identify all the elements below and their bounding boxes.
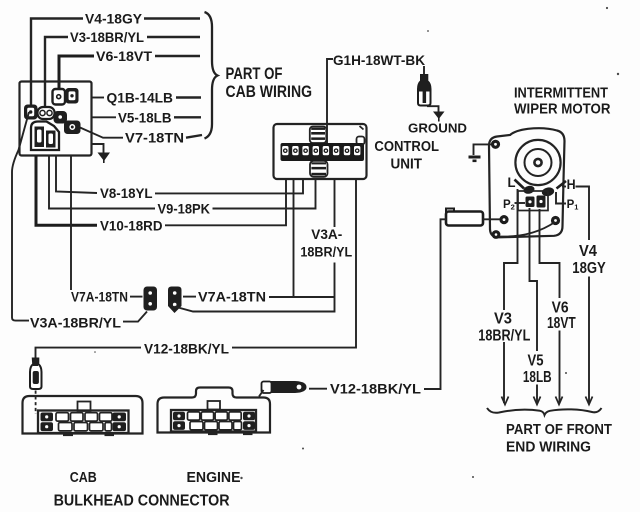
wiper motor body bbox=[489, 128, 565, 237]
bullet connector V12 (engine, horizontal) bbox=[259, 381, 307, 397]
svg-text:V3A-: V3A- bbox=[311, 227, 342, 242]
wire V4-18GY (left elbow + label + line to brace) bbox=[31, 11, 200, 106]
wire V5-18LB (from connector block to brace) bbox=[91, 109, 201, 125]
L terminal tick bbox=[515, 180, 525, 189]
terminal S3 (V4 cavity) bbox=[24, 105, 38, 120]
wire V7A-18TN engine side (to control unit) bbox=[183, 179, 335, 305]
svg-text:V12-18BK/YL: V12-18BK/YL bbox=[144, 341, 229, 357]
motor bolt (right) bbox=[551, 216, 560, 225]
svg-text:V10-18RD: V10-18RD bbox=[100, 217, 163, 233]
park terminal center bbox=[537, 196, 546, 208]
motor ground strap bbox=[469, 144, 492, 160]
label P1 with lead bbox=[556, 192, 578, 212]
wire G1H-18WT-BK (into control unit top) bbox=[327, 53, 425, 143]
svg-text:BULKHEAD CONNECTOR: BULKHEAD CONNECTOR bbox=[54, 492, 230, 509]
wire V8-18YL (connector block to control unit) bbox=[56, 155, 303, 201]
cab harness connector block (top-left) bbox=[20, 82, 92, 156]
terminal S6 (V7 cavity) bbox=[64, 121, 81, 135]
control unit corner notch bbox=[360, 126, 364, 130]
in-line connector (resistor pill) bbox=[446, 209, 500, 226]
ground symbol at connector block bbox=[91, 144, 110, 163]
brace (part of cab wiring) bbox=[205, 12, 218, 139]
svg-text:UNIT: UNIT bbox=[391, 156, 423, 172]
bullet connector V12 (cab, vertical) bbox=[30, 359, 42, 390]
motor armature circles bbox=[515, 140, 560, 185]
wire V6-18VT (left elbow + label + line to brace) bbox=[59, 48, 200, 91]
H terminal tick bbox=[557, 181, 567, 189]
svg-text:18LB: 18LB bbox=[523, 369, 552, 386]
wire V3A-18BR/YL (lower left, from connector block cavity) bbox=[12, 112, 147, 330]
control unit terminal pins bbox=[282, 146, 360, 155]
svg-text:V9-18PK: V9-18PK bbox=[158, 200, 211, 216]
wire V7A-18TN cab side (from connector block) bbox=[71, 155, 143, 305]
svg-text:V5-18LB: V5-18LB bbox=[118, 109, 172, 125]
arrowheads front end wiring bbox=[502, 397, 593, 405]
svg-text:V4-18GY: V4-18GY bbox=[85, 11, 143, 27]
underbrace (part of front end wiring) bbox=[487, 408, 602, 415]
park switch housing bbox=[518, 191, 548, 211]
svg-text:V3A-18BR/YL: V3A-18BR/YL bbox=[30, 314, 121, 330]
wire V5-18LB (motor P2 to front wiring) bbox=[523, 208, 552, 403]
ground symbol (arrow) bbox=[427, 106, 445, 121]
svg-text:18BR/YL: 18BR/YL bbox=[478, 327, 530, 344]
svg-text:V3-18BR/YL: V3-18BR/YL bbox=[70, 29, 144, 45]
wire V3-18BR/YL (left elbow + label + line to brace) bbox=[45, 29, 200, 108]
motor feed bolt (left) bbox=[499, 215, 508, 224]
scan speckles bbox=[94, 7, 619, 479]
bullet connector V7A engine half bbox=[168, 287, 182, 314]
svg-text:V7A-18TN: V7A-18TN bbox=[198, 289, 266, 305]
svg-text:INTERMITTENT: INTERMITTENT bbox=[514, 86, 608, 102]
engine connector pin block bbox=[171, 410, 256, 432]
svg-text:PART OF: PART OF bbox=[226, 65, 283, 83]
cab connector feet bbox=[63, 433, 73, 436]
engine connector notch bbox=[208, 401, 221, 410]
svg-text:V4: V4 bbox=[579, 243, 597, 260]
terminal pair S4 (V3 cavities) bbox=[38, 107, 55, 119]
control unit upper grommet bbox=[310, 127, 327, 144]
terminal S7 (large lower cavity) bbox=[31, 122, 59, 151]
svg-text:PART OF FRONT: PART OF FRONT bbox=[506, 422, 612, 438]
terminal S5 (V5 cavity) bbox=[54, 111, 68, 124]
svg-text:GROUND: GROUND bbox=[408, 120, 467, 135]
engine connector feet bbox=[208, 432, 218, 435]
svg-text:L: L bbox=[508, 174, 516, 190]
svg-text:18VT: 18VT bbox=[547, 315, 576, 332]
svg-text:V6-18VT: V6-18VT bbox=[96, 48, 152, 64]
motor terminal B bolt bbox=[492, 230, 501, 239]
wire V10-18RD (connector block to control unit) bbox=[36, 155, 286, 233]
engine bulkhead connector shell bbox=[158, 388, 271, 433]
svg-text:V5: V5 bbox=[528, 352, 544, 369]
svg-text:18GY: 18GY bbox=[572, 260, 606, 277]
wire V3A-18BR/YL (control unit to engine bullet) bbox=[175, 179, 353, 312]
wire V12-18BK/YL (engine bullet to motor feed) bbox=[309, 219, 446, 396]
wire V3-18BR/YL (motor L to front wiring) bbox=[478, 189, 530, 403]
control unit terminal strip bbox=[281, 137, 365, 162]
svg-text:CAB: CAB bbox=[70, 470, 97, 486]
internal link B to right bolt bbox=[500, 222, 555, 237]
svg-text:CONTROL: CONTROL bbox=[374, 139, 439, 155]
svg-text:END WIRING: END WIRING bbox=[506, 440, 591, 456]
wire V4-18GY (motor H to front wiring) bbox=[562, 187, 606, 404]
cab bulkhead connector shell bbox=[23, 396, 143, 434]
terminal S1 (V6 cavity) bbox=[53, 89, 66, 105]
wire V12-18BK/YL (control unit to cab bullet) bbox=[36, 179, 357, 359]
dashed lead into cab bulkhead connector bbox=[35, 391, 37, 415]
wire V9-18PK (connector block to control unit) bbox=[49, 155, 316, 216]
brush terminal blobs bbox=[523, 185, 536, 195]
svg-text:ENGINE: ENGINE bbox=[187, 470, 241, 486]
park terminal P2 bbox=[526, 197, 535, 208]
svg-text:V3: V3 bbox=[494, 311, 512, 328]
svg-text:V7-18TN: V7-18TN bbox=[125, 130, 184, 146]
svg-text:CAB WIRING: CAB WIRING bbox=[226, 83, 313, 101]
svg-text:Q1B-14LB: Q1B-14LB bbox=[107, 89, 174, 105]
svg-text:V12-18BK/YL: V12-18BK/YL bbox=[330, 381, 421, 397]
cab connector pin block bbox=[38, 402, 129, 434]
svg-text:WIPER MOTOR: WIPER MOTOR bbox=[514, 101, 611, 117]
control unit box bbox=[274, 124, 367, 179]
motor mounting bolt (top left) bbox=[491, 140, 500, 149]
wire Q1B-14LB (from connector block to brace) bbox=[91, 89, 201, 105]
wire V6-18VT (motor center to front wiring) bbox=[540, 209, 577, 403]
bullet connector V7A cab half bbox=[144, 287, 158, 311]
svg-text:G1H-18WT-BK: G1H-18WT-BK bbox=[333, 53, 425, 68]
svg-text:V8-18YL: V8-18YL bbox=[100, 185, 153, 201]
ground bullet connector G1H bbox=[418, 66, 431, 106]
svg-text:V7A-18TN: V7A-18TN bbox=[71, 289, 128, 305]
wire V7-18TN (from connector block to brace) bbox=[80, 128, 202, 146]
label P2 with lead bbox=[503, 199, 525, 212]
svg-text:18BR/YL: 18BR/YL bbox=[300, 244, 352, 259]
svg-text:V6: V6 bbox=[552, 299, 569, 316]
terminal S2 (Q1B cavity) bbox=[66, 88, 79, 104]
control unit lower grommet bbox=[310, 161, 328, 177]
svg-text:H: H bbox=[567, 176, 576, 192]
